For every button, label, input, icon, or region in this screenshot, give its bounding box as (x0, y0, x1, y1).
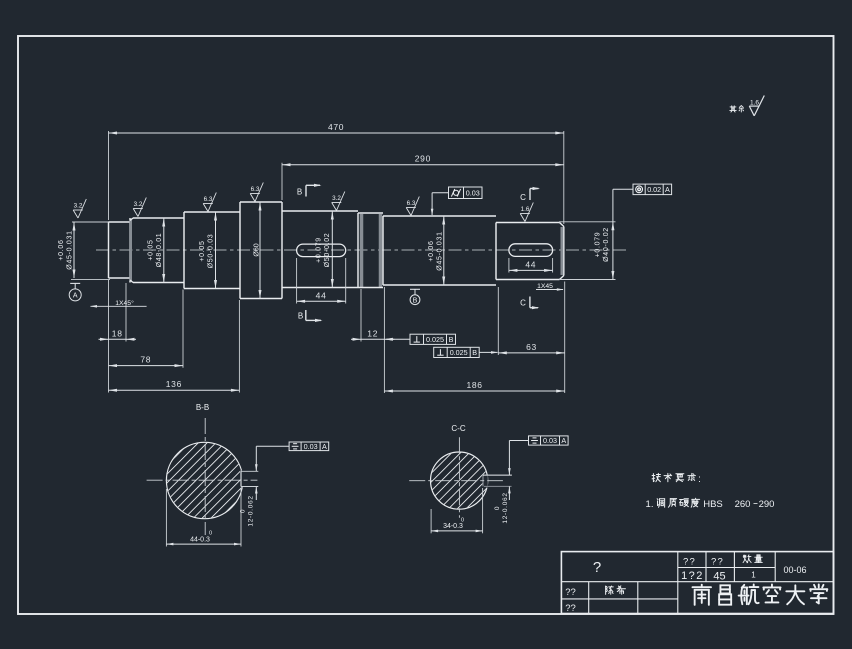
svg-text:1X45°: 1X45° (115, 299, 134, 307)
svg-text:Ø50-0.03: Ø50-0.03 (208, 234, 215, 269)
svg-text:260: 260 (735, 499, 751, 510)
svg-text:78: 78 (140, 355, 151, 365)
svg-text:6.3: 6.3 (204, 196, 213, 203)
svg-text:63: 63 (526, 342, 537, 352)
svg-text:1X45: 1X45 (537, 283, 553, 290)
svg-text:6.3: 6.3 (407, 200, 416, 207)
svg-text:C-C: C-C (451, 424, 465, 433)
svg-text:+0.079: +0.079 (595, 232, 602, 258)
svg-text:Ø45-0.031: Ø45-0.031 (67, 230, 74, 269)
svg-text::: : (698, 474, 701, 485)
svg-text:B: B (472, 348, 477, 357)
svg-text:A: A (665, 185, 670, 194)
svg-text:Ø40-0.02: Ø40-0.02 (603, 227, 610, 262)
svg-text:12-0.062: 12-0.062 (502, 492, 509, 523)
svg-text:12-0.062: 12-0.062 (248, 495, 255, 526)
svg-text:3.2: 3.2 (332, 195, 341, 202)
svg-text:18: 18 (112, 328, 123, 338)
svg-text:+0.05: +0.05 (199, 240, 206, 261)
svg-text:136: 136 (166, 379, 182, 389)
svg-text:C: C (520, 299, 526, 308)
svg-text:12: 12 (367, 328, 378, 338)
svg-text:Ø48-0.01: Ø48-0.01 (156, 233, 163, 268)
svg-text:0.03: 0.03 (304, 442, 318, 451)
svg-text:??: ?? (565, 603, 576, 614)
svg-text:+0.06: +0.06 (428, 240, 435, 261)
svg-text:Ø60: Ø60 (253, 243, 260, 256)
svg-text:0.03: 0.03 (543, 436, 557, 445)
svg-text:0.03: 0.03 (466, 188, 480, 197)
svg-text:+0.06: +0.06 (58, 239, 65, 260)
svg-text:A: A (322, 442, 327, 451)
svg-text:1.6: 1.6 (521, 206, 530, 213)
svg-text:186: 186 (466, 380, 482, 390)
svg-text:B: B (449, 335, 454, 344)
svg-text:290: 290 (415, 154, 431, 164)
svg-text:3.2: 3.2 (134, 201, 143, 208)
svg-text:B: B (413, 297, 418, 304)
svg-text:A: A (561, 436, 566, 445)
svg-text:44: 44 (316, 290, 327, 300)
svg-text:1?2: 1?2 (681, 570, 704, 582)
svg-text:??: ?? (711, 557, 724, 568)
svg-text:B: B (298, 312, 303, 321)
svg-text:44: 44 (525, 259, 536, 269)
svg-text:Ø50-0.02: Ø50-0.02 (324, 233, 331, 268)
svg-text:1.: 1. (646, 499, 654, 510)
svg-text:HBS: HBS (703, 499, 723, 510)
svg-text:C: C (520, 193, 526, 202)
svg-text:1: 1 (751, 571, 756, 580)
svg-text:470: 470 (328, 122, 344, 132)
svg-text:1.6: 1.6 (750, 100, 759, 107)
svg-text:0.025: 0.025 (450, 348, 468, 357)
svg-text:A: A (73, 293, 78, 300)
svg-text:290: 290 (759, 499, 775, 510)
svg-text:0: 0 (461, 518, 464, 524)
svg-text:+0.05: +0.05 (148, 239, 155, 260)
svg-text:45: 45 (713, 571, 725, 583)
svg-text:Ø45-0.031: Ø45-0.031 (437, 231, 444, 270)
svg-text:34-0.3: 34-0.3 (443, 523, 463, 530)
svg-text:00-06: 00-06 (783, 565, 806, 575)
svg-text:+0.079: +0.079 (316, 237, 323, 263)
svg-text:?: ? (593, 559, 601, 576)
svg-text:0.02: 0.02 (647, 185, 661, 194)
svg-text:3.2: 3.2 (74, 203, 83, 210)
svg-text:0.025: 0.025 (426, 335, 444, 344)
svg-text:6.3: 6.3 (251, 186, 260, 193)
svg-text:44-0.3: 44-0.3 (190, 537, 210, 544)
svg-text:??: ?? (683, 557, 696, 568)
svg-text:0: 0 (494, 506, 501, 510)
svg-text:B-B: B-B (196, 403, 209, 412)
svg-text:0: 0 (209, 531, 212, 537)
svg-text:B: B (297, 188, 302, 197)
svg-text:??: ?? (565, 587, 576, 598)
